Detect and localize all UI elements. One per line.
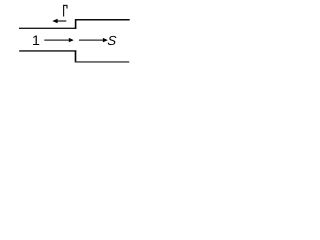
svg-text:1: 1 [32, 33, 40, 49]
wire: bottom waveform falling step vertical [75, 51, 77, 63]
wire: bottom waveform low segment [75, 61, 129, 63]
wire: arrow from 1 [44, 38, 74, 42]
wire: top waveform low segment [19, 27, 76, 29]
svg-text:S: S [107, 33, 117, 48]
background [0, 0, 160, 66]
wire: bottom waveform high segment [19, 50, 76, 52]
wire: top waveform high segment [75, 19, 130, 21]
wire: left-pointing shift arrow [52, 19, 66, 23]
node: rising-edge symbol (gamma) above arrow [63, 5, 67, 17]
wire: arrow into S [79, 38, 108, 42]
wire: top waveform rising step vertical [75, 19, 77, 28]
